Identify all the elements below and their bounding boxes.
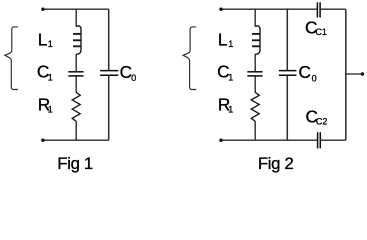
capacitor C1 (Fig1 plates) [68,72,83,76]
wire: Fig1 right branch upper segment [108,9,110,70]
svg-text:1: 1 [228,72,233,82]
wire: Fig2 top horizontal right of CC1 [321,8,346,10]
wire: Fig1 middle branch between L1 and C1 [75,54,77,71]
wire: Fig2 C0 branch upper segment [286,9,288,70]
capacitor C0 (Fig1 plates) [100,71,118,76]
svg-text:1: 1 [48,39,53,49]
svg-text:C1: C1 [315,27,327,37]
wire: Fig2 middle branch bottom segment [254,121,256,140]
svg-text:L: L [38,30,48,50]
node: Fig1 top-left terminal dot [41,8,44,11]
wire: Fig2 top horizontal left of CC1 [221,8,317,10]
wire: Fig2 bottom horizontal right of CC2 [321,139,346,141]
wire: Fig2 middle branch between L1 and C1 [254,54,256,71]
capacitor CC2 (series cap in bottom wire) [318,132,321,148]
svg-text:0: 0 [312,74,317,84]
wire: Fig1 middle branch between C1 and R1 [75,76,77,92]
wire: Fig1 middle branch bottom segment [75,121,77,140]
capacitor C1 (Fig2 plates) [247,72,262,76]
wire: Fig1 middle branch top segment [75,9,77,26]
inductor L1 (Fig1 coil) [73,26,81,54]
node: Fig2 bottom-left terminal dot [219,139,222,142]
capacitor C0 (Fig2 plates) [279,71,297,76]
node: Fig1 bottom-left terminal dot [41,139,44,142]
svg-text:C2: C2 [316,116,328,126]
svg-text:C: C [120,62,132,82]
resistor R1 (Fig1 zigzag) [72,92,80,121]
wire: Fig2 middle branch top segment [254,9,256,26]
svg-text:0: 0 [131,73,136,83]
svg-text:1: 1 [48,104,53,114]
wire: Fig2 right branch vertical [345,9,347,140]
svg-text:1: 1 [228,39,233,49]
wire: Fig2 output lead [346,73,362,75]
wire: Fig2 middle branch between C1 and R1 [254,76,256,92]
svg-text:L: L [218,30,228,50]
wire: Fig2 C0 branch lower segment [286,76,288,141]
resistor R1 (Fig2 zigzag) [251,92,259,121]
wire: Fig1 bottom horizontal [42,139,108,141]
svg-text:1: 1 [48,72,53,82]
svg-text:1: 1 [228,104,233,114]
wire: Fig2 bottom horizontal left of CC2 [221,139,318,141]
wire: Fig1 top horizontal [42,8,108,10]
svg-text:Fig 2: Fig 2 [258,154,294,173]
brace (Fig 1 left curly bracket) [5,27,18,90]
svg-text:C: C [299,62,311,82]
svg-text:Fig 1: Fig 1 [57,154,93,173]
capacitor CC1 (series cap in top wire) [317,2,320,17]
wire: Fig1 right branch lower segment [108,76,110,141]
node: Fig2 top-left terminal dot [219,8,222,11]
brace (Fig 2 left curly bracket) [183,27,196,90]
node: Fig2 output terminal dot [361,72,364,75]
inductor L1 (Fig2 coil) [252,26,260,54]
